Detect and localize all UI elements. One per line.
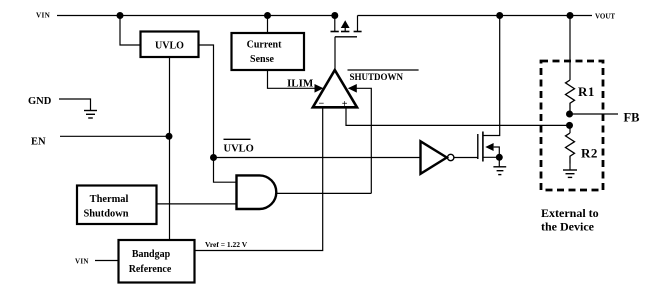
svg-text:GND: GND <box>28 96 52 107</box>
svg-text:Sense: Sense <box>250 54 274 65</box>
gate plate <box>477 134 479 159</box>
arrow ILIM into comparator <box>315 84 324 93</box>
wire VIN rail left segment <box>57 15 335 17</box>
wire VIN to bandgap <box>95 260 119 262</box>
svg-text:R1: R1 <box>578 84 595 99</box>
svg-text:R2: R2 <box>581 146 598 161</box>
wire comparator minus input to Vref <box>195 107 323 250</box>
svg-text:Shutdown: Shutdown <box>83 209 128 220</box>
transistor Q1 PMOS pass element <box>331 16 362 37</box>
svg-text:External to: External to <box>541 206 599 220</box>
wire UVLO-bar to inverter <box>214 157 421 159</box>
gate plate <box>335 36 357 38</box>
svg-text:Vref = 1.22 V: Vref = 1.22 V <box>205 240 248 249</box>
drain bar and lead <box>354 31 362 33</box>
junction EN on UVLO vertical <box>166 133 173 140</box>
ground symbol at NMOS source <box>493 157 506 174</box>
wire current-sense top lead <box>267 16 269 34</box>
wire FB out <box>570 113 619 115</box>
wire gate drive from comparator apex <box>334 37 336 70</box>
svg-text:EN: EN <box>31 137 46 148</box>
wire EN <box>60 135 170 137</box>
junction current-sense tap <box>264 12 271 19</box>
ground symbol at GND pin <box>84 111 97 119</box>
body arrow <box>341 20 350 28</box>
label External to the Device <box>541 206 599 234</box>
junction PMOS source dot <box>331 12 338 19</box>
arrow SHUTDOWN into comparator <box>348 84 357 93</box>
junction VIN-UVLO tap <box>117 12 124 19</box>
wire UVLO right output <box>199 45 214 158</box>
block Bandgap Reference <box>119 240 195 283</box>
svg-text:FB: FB <box>624 111 640 125</box>
ground symbol under R2 <box>563 164 577 178</box>
svg-text:VIN: VIN <box>75 258 89 266</box>
svg-text:−: − <box>319 99 325 110</box>
source lead <box>334 16 336 32</box>
wire inverter output to NMOS gate <box>454 157 478 159</box>
wire UVLO-bar to AND input 1 <box>214 158 237 183</box>
svg-text:VIN: VIN <box>36 12 51 20</box>
wire UVLO tap down <box>120 16 141 46</box>
channel bar <box>482 132 484 162</box>
svg-text:Current: Current <box>247 40 282 51</box>
label UVLO-bar with overline <box>224 139 254 154</box>
inverter U3 <box>421 141 454 174</box>
wire current-sense to ILIM <box>268 70 318 88</box>
drain lead <box>483 16 500 136</box>
wire shutdown line from AND gate <box>353 88 371 193</box>
junction NMOS source-body <box>496 154 503 161</box>
wire thermal shutdown to AND input 2 <box>157 203 237 205</box>
svg-text:+: + <box>342 99 348 110</box>
block Thermal Shutdown <box>77 186 157 225</box>
svg-text:UVLO: UVLO <box>155 41 184 52</box>
block UVLO <box>141 32 199 58</box>
junction R1 tap <box>567 12 574 19</box>
wire UVLO bottom vertical to bandgap <box>169 57 171 240</box>
source lead <box>483 156 499 158</box>
wire AND output to shutdown line <box>276 192 371 194</box>
block Current Sense <box>232 33 305 70</box>
svg-text:Bandgap: Bandgap <box>132 249 171 260</box>
AND gate U2 <box>237 175 277 209</box>
body arrow <box>485 143 493 151</box>
label SHUTDOWN with overline <box>348 70 419 82</box>
resistor R1 <box>566 80 595 114</box>
svg-text:UVLO: UVLO <box>224 144 254 155</box>
svg-text:ILIM: ILIM <box>287 78 314 90</box>
wire VOUT rail right segment <box>358 15 593 17</box>
svg-text:SHUTDOWN: SHUTDOWN <box>350 72 404 82</box>
svg-text:Thermal: Thermal <box>90 194 129 205</box>
junction NMOS drain tap <box>496 12 503 19</box>
svg-text:Reference: Reference <box>129 264 172 275</box>
junction FB divider node <box>566 122 573 129</box>
junction UVLO-bar node <box>210 154 217 161</box>
wire divider node down <box>569 125 571 133</box>
wire GND lead <box>59 99 91 111</box>
svg-text:VOUT: VOUT <box>595 13 615 21</box>
dashed external box <box>541 61 603 190</box>
wire VOUT to R1 <box>569 16 571 81</box>
wire comparator plus input to FB <box>346 107 570 125</box>
op-amp error comparator U1 <box>313 70 357 107</box>
resistor R2 <box>566 133 598 164</box>
svg-text:the Device: the Device <box>541 220 595 234</box>
junction FB out node <box>566 111 573 118</box>
transistor Q2 NMOS gate pulldown <box>478 16 500 162</box>
